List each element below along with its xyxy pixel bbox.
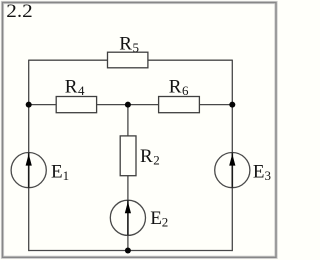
label R6 — [169, 77, 189, 99]
svg-text:R: R — [169, 77, 182, 98]
svg-text:R: R — [140, 146, 153, 167]
source E2 — [110, 200, 145, 235]
source E1 — [11, 153, 46, 188]
svg-text:R: R — [119, 34, 132, 55]
wire: left vertical — [28, 60, 30, 252]
svg-text:E: E — [51, 162, 63, 183]
svg-text:5: 5 — [133, 40, 140, 55]
node C junction dot — [229, 102, 235, 108]
label E2 — [150, 208, 168, 230]
label R5 — [119, 34, 139, 56]
wire: right vertical — [231, 60, 233, 252]
svg-text:R: R — [65, 77, 78, 98]
wire: bottom horizontal — [29, 250, 233, 252]
svg-text:4: 4 — [78, 83, 85, 98]
resistor R6 — [159, 97, 200, 113]
svg-text:2: 2 — [162, 215, 169, 230]
label E1 — [51, 162, 69, 184]
svg-text:3: 3 — [265, 168, 272, 183]
label R2 — [140, 146, 160, 168]
wire: middle row left (node A to R4) — [29, 104, 57, 106]
source E3 — [215, 153, 250, 188]
wire: middle vertical branch — [127, 105, 129, 251]
node D junction dot — [125, 248, 131, 254]
wire: top left segment — [29, 59, 108, 61]
svg-text:6: 6 — [182, 83, 189, 98]
wire: middle row node B to R6 — [128, 104, 159, 106]
resistor R4 — [56, 97, 96, 113]
label E3 — [253, 161, 271, 183]
wire: middle row R4 to node B — [97, 104, 128, 106]
resistor R2 — [120, 136, 136, 176]
label R4 — [65, 77, 85, 99]
wire: middle row R6 to node C — [199, 104, 232, 106]
svg-text:2.2: 2.2 — [6, 1, 32, 22]
wire: top right segment — [148, 59, 233, 61]
node B junction dot — [125, 102, 131, 108]
svg-text:E: E — [253, 161, 265, 182]
resistor R5 — [108, 52, 148, 68]
svg-text:2: 2 — [153, 152, 160, 167]
svg-text:1: 1 — [63, 168, 70, 183]
svg-text:E: E — [150, 208, 162, 229]
node A junction dot — [26, 102, 32, 108]
